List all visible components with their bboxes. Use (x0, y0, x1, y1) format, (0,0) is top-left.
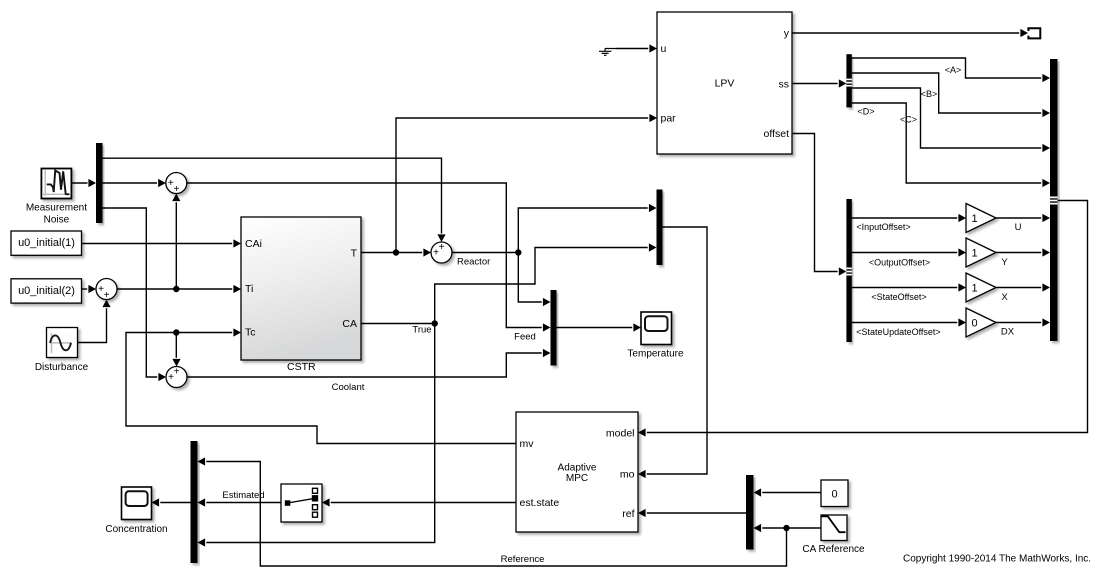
wire BS1 out1 signal A to bus creator (852, 58, 1050, 82)
svg-text:Reactor: Reactor (457, 256, 490, 267)
svg-text:MPC: MPC (566, 473, 588, 484)
svg-text:mv: mv (520, 438, 535, 450)
wire gain G1 out U to bus creator (996, 214, 1050, 222)
svg-text:+: + (439, 242, 445, 253)
svg-text:Ti: Ti (245, 283, 253, 295)
svg-text:<C>: <C> (900, 114, 917, 124)
svg-text:model: model (606, 427, 635, 439)
block LPV System (657, 12, 792, 154)
block CA Reference (signal source) (821, 515, 847, 541)
wire bus creator BC out to Adaptive MPC model (638, 201, 1088, 437)
svg-text:u0_initial(1): u0_initial(1) (18, 237, 75, 249)
svg-text:mo: mo (620, 468, 635, 480)
node Tc branch junction (173, 329, 179, 335)
block Adaptive MPC controller (516, 412, 638, 532)
wire Ti branch up to sum S1 bottom (172, 194, 180, 290)
svg-text:T: T (351, 248, 358, 260)
wire sum S1 out to Feed mux input 2 (187, 183, 551, 332)
wire Reference branch to mux MxC input 1 (198, 457, 787, 566)
bus creator BC (model bus, 8 inputs) (1050, 59, 1058, 341)
svg-text:CAi: CAi (245, 238, 262, 250)
wire constant 0 to mux MxR input 1 (754, 488, 822, 496)
gain G2 value 1 (OutputOffset Y) (966, 238, 996, 267)
svg-text:<StateOffset>: <StateOffset> (871, 292, 926, 302)
svg-text:Coolant: Coolant (332, 382, 365, 393)
svg-text:ref: ref (622, 508, 634, 520)
wire sum S3 out (Coolant) to Feed mux input 3 (187, 349, 551, 377)
wire LPV offset out to bus selector BS2 (792, 134, 846, 276)
gain G1 value 1 (InputOffset U) (966, 204, 996, 233)
scope Concentration (flipped) (122, 487, 152, 520)
wire ground to LPV u (616, 44, 657, 52)
label Measurement Noise (26, 203, 87, 226)
wire mux MxC out to Concentration scope (152, 498, 191, 506)
wire LPV y out to terminator (792, 29, 1028, 37)
svg-text:LPV: LPV (715, 77, 735, 89)
wire u0_initial(2) to sum S2 (82, 285, 96, 293)
wire u0_initial(1) to CSTR CAi (82, 239, 241, 247)
svg-text:<A>: <A> (945, 65, 962, 75)
wire CA down to mux MxC input 3 (198, 324, 435, 547)
svg-text:X: X (1001, 292, 1008, 303)
node measured T junction (515, 249, 521, 255)
block constant 0 (821, 480, 848, 507)
svg-text:Adaptive: Adaptive (558, 463, 597, 474)
mux Feed (3 inputs) (551, 290, 557, 366)
wire sum S2 out to CSTR Ti (117, 285, 241, 293)
svg-text:Y: Y (1001, 257, 1008, 268)
svg-text:par: par (661, 112, 677, 124)
mux MxC (concentration display mux, flipped) (191, 441, 198, 563)
svg-text:CSTR: CSTR (287, 361, 316, 373)
node T junction (393, 249, 399, 255)
wire CA Reference to mux MxR input 2 (754, 524, 822, 532)
svg-text:Noise: Noise (44, 215, 70, 226)
wire Reactor sum out (measured T) (452, 252, 518, 254)
svg-text:Feed: Feed (514, 332, 536, 343)
wire BS2 out1 InputOffset to gain G1 (852, 214, 966, 222)
gain G3 value 1 (StateOffset X) (966, 273, 996, 302)
wire Tc branch down to sum S3 top (172, 333, 180, 367)
node Ti branch junction (173, 286, 179, 292)
wire LPV ss out to bus selector BS1 (792, 79, 846, 87)
svg-text:0: 0 (831, 488, 837, 500)
ground symbol (input of LPV u) (599, 49, 616, 56)
gain G4 value 0 (StateUpdateOffset DX) (966, 308, 996, 337)
wire T branch up to LPV par (396, 114, 657, 253)
sum S1 (Ti + noise) (166, 173, 187, 196)
svg-text:<B>: <B> (921, 89, 938, 99)
wire BS1 out2 signal B to bus creator (852, 73, 1050, 117)
svg-text:Disturbance: Disturbance (35, 362, 89, 373)
block CSTR subsystem (241, 217, 361, 360)
sum S2 (u0_initial(2) + Disturbance) (96, 279, 117, 302)
svg-text:y: y (784, 27, 790, 39)
wire mux MxR out to Adaptive MPC ref (638, 509, 746, 517)
svg-text:1: 1 (971, 283, 977, 295)
bus selector BS1 (A,B,C,D matrices) (846, 54, 851, 107)
svg-text:Concentration: Concentration (105, 524, 167, 535)
terminator T1 (output y) (1028, 28, 1040, 38)
svg-text:True: True (412, 325, 431, 336)
svg-text:U: U (1015, 222, 1022, 233)
svg-text:Reference: Reference (501, 554, 545, 565)
switch (manual switch, flipped) (281, 484, 322, 522)
wire Adaptive MPC est.state to switch (322, 498, 516, 506)
wire measured T down to Feed mux input 1 (518, 253, 550, 307)
svg-text:DX: DX (1001, 327, 1015, 338)
wire measured T up to mux Mx2 input 1 (518, 204, 656, 253)
svg-text:Measurement: Measurement (26, 203, 87, 214)
wire Adaptive MPC mv to CSTR Tc (126, 328, 516, 443)
svg-text:Tc: Tc (245, 327, 256, 339)
svg-text:<D>: <D> (857, 106, 874, 116)
svg-text:Temperature: Temperature (627, 349, 684, 360)
block u0_initial(1) constant (11, 231, 82, 255)
scope Temperature (641, 312, 672, 345)
sum Reactor (T + noise) (431, 242, 452, 263)
wire Feed mux out to Temperature scope (557, 323, 642, 331)
sum S3 (coolant + noise) (166, 366, 187, 387)
svg-text:1: 1 (971, 213, 977, 225)
svg-text:Estimated: Estimated (222, 490, 264, 501)
mux Mx2 (T,CA measured outputs) (657, 190, 663, 266)
block Measurement Noise (random source) (41, 169, 71, 199)
svg-text:Copyright 1990-2014 The MathWo: Copyright 1990-2014 The MathWorks, Inc. (903, 554, 1091, 565)
wire CSTR T out to Reactor sum (361, 248, 431, 256)
svg-text:u: u (661, 43, 667, 55)
svg-text:<StateUpdateOffset>: <StateUpdateOffset> (856, 327, 940, 337)
block u0_initial(2) constant (11, 279, 82, 303)
wire gain G3 out X to bus creator (996, 283, 1050, 291)
wire mux Mx2 out to Adaptive MPC mo (638, 227, 707, 478)
svg-text:+: + (174, 184, 180, 195)
wire noise3: Dmx1 out3 to sum S3 left (103, 208, 167, 381)
wire BS1 out3 signal C to bus creator (852, 88, 1050, 152)
svg-text:<OutputOffset>: <OutputOffset> (869, 257, 930, 267)
svg-text:offset: offset (764, 128, 790, 140)
wire gain G4 out DX to bus creator (996, 318, 1050, 326)
wire BS2 out4 StateUpdateOffset to gain G4 (852, 318, 966, 326)
wire switch out (Estimated) to mux MxC input 2 (198, 498, 282, 506)
wire noise2: Dmx1 out2 to sum S1 (103, 179, 166, 187)
svg-text:0: 0 (971, 318, 977, 330)
wire Measurement Noise to demux Dmx1 (71, 179, 96, 187)
wire BS2 out2 OutputOffset to gain G2 (852, 248, 966, 256)
demux Dmx1 (measurement noise demux bar) (96, 143, 103, 223)
wire CA up to mux Mx2 input 2 (435, 243, 657, 323)
wire Disturbance to sum S2 bottom (78, 300, 111, 343)
node CA Reference junction (783, 525, 789, 531)
svg-text:+: + (104, 290, 110, 301)
wire gain G2 out Y to bus creator (996, 248, 1050, 256)
mux MxR (reference mux, flipped) (746, 475, 754, 550)
svg-text:+: + (174, 366, 180, 377)
svg-text:CA: CA (342, 318, 357, 330)
wire BS2 out3 StateOffset to gain G3 (852, 283, 966, 291)
svg-text:ss: ss (779, 78, 790, 90)
svg-text:1: 1 (971, 248, 977, 260)
block Disturbance (sine wave) (47, 328, 78, 358)
wire CSTR CA out (True) (361, 323, 435, 325)
wire BS1 out4 signal D to bus creator (852, 103, 1050, 187)
svg-text:<InputOffset>: <InputOffset> (856, 222, 910, 232)
wire noise1: Dmx1 out1 to Reactor sum top (103, 158, 446, 242)
svg-text:CA Reference: CA Reference (802, 544, 865, 555)
bus selector BS2 (offsets) (846, 199, 851, 342)
svg-text:u0_initial(2): u0_initial(2) (18, 285, 75, 297)
svg-text:est.state: est.state (520, 497, 560, 509)
node CA True junction (432, 320, 438, 326)
